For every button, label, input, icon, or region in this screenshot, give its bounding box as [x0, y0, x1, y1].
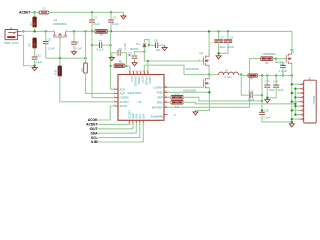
svg-text:C4: C4: [230, 36, 234, 40]
junction minus rail pin 8: [294, 114, 296, 116]
junction rail C15 right: [261, 74, 263, 76]
pin J1-1: [18, 31, 21, 33]
resistor R2: [95, 30, 107, 34]
wire C12 to output rail: [282, 68, 284, 76]
wire LODRV to Q4 gate: [168, 86, 204, 88]
svg-text:ACOK: ACOK: [120, 104, 128, 108]
wire J2 pin 4 to minus rail: [295, 96, 299, 98]
svg-text:1uF: 1uF: [156, 48, 161, 52]
pin J2-6: [299, 105, 302, 107]
svg-text:CMSRC: CMSRC: [120, 96, 130, 100]
wire switch node to Q4 drain: [208, 75, 210, 79]
transistor Q1 FDS6680A: [53, 31, 67, 41]
svg-text:C15: C15: [249, 89, 254, 93]
wire rail down to R6: [110, 45, 112, 66]
wire SRP to R10: [168, 96, 172, 98]
pin J2-5: [299, 101, 302, 103]
wire C2 to input bus: [110, 22, 112, 31]
junction R4 rail row: [84, 57, 86, 59]
svg-text:PHASE: PHASE: [144, 77, 148, 86]
junction rail C12: [282, 74, 284, 76]
capacitor C10: [32, 57, 38, 59]
wire C9 right down to R6 node: [120, 53, 126, 66]
junction minus rail pin 4: [294, 96, 296, 98]
wire bus to C3: [218, 31, 220, 40]
svg-text:10uF: 10uF: [219, 45, 225, 49]
wire C11 top: [134, 52, 136, 56]
junction bus C6: [73, 30, 75, 32]
svg-text:PWR_JACK: PWR_JACK: [4, 41, 19, 45]
svg-text:ILIM: ILIM: [91, 140, 98, 144]
junction plus rail pin 7: [291, 109, 293, 111]
wire switch node to L1: [209, 74, 218, 76]
resistor R6 100: [114, 64, 125, 68]
svg-text:2.2uF: 2.2uF: [35, 60, 42, 64]
svg-text:GND: GND: [157, 90, 163, 94]
junction rail battery: [291, 74, 293, 76]
wire bus down to Q3 drain: [208, 31, 210, 53]
wire sense rail down: [261, 76, 263, 111]
svg-text:U5: U5: [137, 100, 141, 104]
resistor R11: [171, 101, 183, 105]
junction gate node: [59, 57, 61, 59]
wire top rail to C1: [91, 12, 93, 20]
junction minus rail SRN: [294, 103, 296, 105]
svg-text:0.1uF: 0.1uF: [264, 116, 271, 120]
junction Q4 source gnd: [208, 91, 210, 93]
wire SDA label to IC pin 8: [98, 123, 136, 133]
wire C1 to input bus: [91, 22, 93, 31]
wire ACDET junction down to R1: [34, 12, 36, 17]
junction Q2 gate C12: [275, 57, 277, 59]
svg-text:C2: C2: [113, 15, 117, 19]
wire top rail end hook: [111, 12, 124, 14]
svg-text:2K: 2K: [34, 22, 37, 25]
pin U5 top PHASE: [143, 72, 145, 75]
pin J2-7: [299, 109, 302, 111]
svg-text:100: 100: [117, 64, 122, 68]
svg-text:D1: D1: [136, 42, 140, 46]
junction C1 top: [91, 11, 93, 13]
junction bus C1 rail: [91, 30, 93, 32]
wire HIDRV row to Q3 gate: [144, 60, 203, 62]
svg-text:SDA: SDA: [134, 113, 138, 119]
svg-text:ACDET: ACDET: [86, 123, 97, 127]
wire gate node down to R16: [59, 58, 61, 66]
svg-text:J1: J1: [10, 26, 13, 30]
transistor Q4 SIS412DN: [203, 78, 209, 88]
svg-text:10m: 10m: [174, 100, 179, 104]
wire C8 right to ground: [158, 45, 165, 46]
svg-text:1: 1: [53, 30, 54, 32]
pin J2-9: [299, 118, 302, 120]
junction C8 left: [148, 44, 150, 46]
pin U5 bottom SCL: [139, 120, 141, 123]
svg-text:NF: NF: [265, 57, 269, 61]
svg-text:BATDRV: BATDRV: [152, 105, 163, 109]
pin U5 left ACOK: [115, 105, 119, 107]
svg-text:REGN: REGN: [148, 77, 152, 85]
capacitor C13: [264, 85, 270, 87]
pin U5 bottom SDA: [135, 120, 137, 123]
svg-text:ILIM: ILIM: [141, 114, 145, 119]
svg-text:Battery: Battery: [312, 96, 316, 105]
junction C7 left: [91, 44, 93, 46]
wire R4 to IC pin ACP: [86, 73, 115, 93]
svg-text:C5: C5: [48, 37, 52, 41]
junction bus R1: [33, 30, 35, 32]
junction plus rail pin 3: [291, 92, 293, 94]
wire SRN to R11: [168, 101, 172, 103]
svg-text:IOUT: IOUT: [90, 127, 98, 131]
svg-text:SIS412DN: SIS412DN: [186, 67, 199, 71]
wire J2 pin 8 to minus rail: [295, 114, 299, 116]
resistor R3: [33, 38, 37, 48]
wire bus to C6: [73, 31, 75, 41]
ground symbol C11: [132, 62, 137, 66]
svg-text:ACN: ACN: [120, 87, 126, 91]
junction C15 right rail: [261, 94, 263, 96]
wire R16 to IC pin ACDRV route: [60, 76, 115, 102]
capacitor C9: [118, 50, 120, 56]
svg-text:ACDET: ACDET: [127, 110, 131, 119]
diode D1 BAT54: [143, 44, 146, 47]
resistor R16: [58, 66, 62, 76]
svg-text:4.7uH: 4.7uH: [224, 75, 231, 79]
wire battery minus rail vertical: [294, 89, 296, 115]
svg-text:2K: 2K: [34, 43, 37, 46]
wire top rail to C2: [110, 12, 112, 20]
svg-text:C1: C1: [94, 15, 98, 19]
wire L1 to output rail: [239, 74, 242, 76]
junction minus rail pin 2: [294, 88, 296, 90]
wire REGN node down: [143, 52, 145, 61]
wire J1 pin2 ground return: [21, 35, 35, 65]
wire C3 C4 bottoms join: [219, 42, 228, 53]
wire output rail to R7: [241, 75, 248, 77]
wire to C8: [149, 44, 156, 46]
svg-text:R7: R7: [250, 76, 254, 80]
svg-text:R2: R2: [100, 32, 104, 36]
pin J2-1: [299, 83, 302, 85]
junction switch node: [208, 73, 210, 75]
wire R3 to C10: [34, 48, 36, 57]
junction J1 output: [22, 30, 24, 32]
wire C15 right: [252, 94, 262, 96]
junction minus rail pin 6: [294, 105, 296, 107]
svg-text:SCL: SCL: [91, 136, 98, 140]
pin U5 right SRP: [164, 96, 168, 98]
junction C7 right: [109, 44, 111, 46]
wire C6 to ground: [73, 44, 75, 51]
pin U5 top BTST: [140, 72, 142, 75]
connector J1 PWR_JACK: [5, 30, 18, 40]
svg-text:C14: C14: [273, 79, 278, 83]
wire J2 pin 3 to plus rail: [292, 92, 299, 94]
pin U5 bottom IOUT: [132, 120, 134, 123]
wire J2 pin 9 to plus rail: [292, 118, 299, 120]
wire J2 pin 1 to plus rail: [292, 83, 299, 85]
wire down to IC top pin BTST: [147, 61, 149, 75]
capacitor C14: [273, 85, 279, 87]
svg-text:0.1uF: 0.1uF: [112, 22, 119, 26]
wire to C7: [92, 44, 100, 46]
wire J2 pin 7 to plus rail: [292, 109, 299, 111]
wire bus to C4: [227, 31, 229, 40]
svg-text:C7: C7: [99, 39, 103, 43]
junction rail C14: [275, 74, 277, 76]
resistor R10: [171, 96, 183, 100]
junction HIDRV pin: [147, 60, 149, 62]
capacitor C15: [250, 92, 252, 98]
pin U5 right LODRV: [164, 86, 168, 88]
capacitor C5: [43, 42, 49, 44]
wire C2 rail down: [110, 31, 112, 45]
svg-text:2.2uF: 2.2uF: [123, 42, 127, 49]
junction bus C5: [45, 30, 47, 32]
wire R6 right: [125, 65, 127, 67]
wire Q1 drain bus to right: [67, 30, 293, 32]
svg-text:PowerPAD: PowerPAD: [151, 114, 164, 118]
pin U5 top VCC: [129, 72, 131, 75]
capacitor C1: [89, 20, 95, 22]
capacitor C3: [214, 40, 223, 42]
wire C11 bottom: [134, 58, 136, 62]
wire VCC node to IC top pin: [127, 66, 130, 75]
junction battery minus bottom: [291, 121, 293, 123]
pin U5 left ACN: [115, 88, 119, 90]
op-amp U5 bq24725A body: [118, 75, 164, 121]
wire IC top pin PHASE up: [143, 65, 145, 74]
pin U5 right SRN: [164, 101, 168, 103]
transistor Q3 SIS412DN: [203, 54, 209, 68]
svg-text:10m: 10m: [174, 95, 179, 99]
svg-text:IOUT: IOUT: [131, 112, 135, 119]
wire IOUT label to IC pin 9: [98, 123, 133, 129]
wire BATDRV to R5: [168, 59, 261, 108]
svg-text:FDS6680A: FDS6680A: [53, 22, 67, 26]
svg-text:3: 3: [66, 30, 67, 32]
pin U5 PowerPAD: [164, 114, 168, 116]
wire SCL label to IC pin 7: [98, 123, 140, 137]
wire Q3 source to switch node: [208, 67, 210, 75]
pin U5 left ACDRV: [115, 101, 119, 103]
wire ground run to arrow: [196, 110, 210, 112]
svg-text:BAT54: BAT54: [130, 47, 139, 51]
junction R6 left: [109, 65, 111, 67]
ground symbol power stage: [193, 111, 198, 115]
wire bus to C5: [45, 31, 47, 41]
capacitor C8: [156, 43, 158, 49]
junction bus C4: [227, 30, 229, 32]
wire J2 pin 2 to minus rail: [295, 88, 299, 90]
transistor Q2 FDS6680A: [286, 52, 292, 65]
svg-text:R5: R5: [265, 61, 269, 65]
svg-text:10uF: 10uF: [269, 88, 275, 92]
pin U5 top HIDRV: [136, 72, 138, 75]
wire C10 to ground node: [34, 59, 36, 66]
no-connect mark: [129, 54, 131, 56]
fuse F1: [39, 11, 49, 14]
svg-text:PHASE1: PHASE1: [134, 77, 138, 88]
svg-text:Q3: Q3: [199, 51, 203, 55]
svg-text:HIDRV: HIDRV: [137, 77, 141, 85]
junction ground node left: [33, 65, 35, 67]
pin J2-3: [299, 92, 302, 94]
svg-text:F1: F1: [42, 6, 46, 10]
pin U5 right BATDRV: [164, 106, 168, 108]
junction bus C3: [217, 30, 219, 32]
wire PHASE row to switch node: [144, 65, 209, 74]
ground symbol battery: [289, 123, 294, 127]
wire J2 pin 5 to plus rail: [292, 101, 299, 103]
capacitor C6: [71, 42, 77, 44]
pin U5 left CMSRC: [115, 97, 119, 99]
wire rail to C13: [266, 76, 268, 86]
inductor L1: [219, 72, 239, 75]
wire Q4 source down to gnd run: [208, 88, 210, 111]
pin U5 top PHASE1: [133, 72, 135, 75]
pin J2-8: [299, 114, 302, 116]
ground symbol C9: [109, 56, 114, 60]
svg-text:0.1uF: 0.1uF: [93, 22, 100, 26]
svg-text:ACOK: ACOK: [88, 118, 98, 122]
junction rail C13: [266, 74, 268, 76]
svg-text:ACDET: ACDET: [19, 10, 30, 14]
pin U5 top REGN: [147, 72, 149, 75]
wire C1 rail down: [91, 31, 93, 45]
pin J2-4: [299, 96, 302, 98]
wire rail jog: [240, 74, 242, 77]
junction R6 right: [125, 65, 127, 67]
wire bus down to Q2 drain: [291, 31, 293, 52]
svg-text:FDS6680A: FDS6680A: [262, 52, 276, 56]
ground symbol left: [32, 66, 37, 70]
wire Q1 gate down: [59, 41, 61, 58]
wire J2 pin 6 to minus rail: [295, 105, 299, 107]
wire bus down to R4: [85, 31, 87, 63]
capacitor C12: [280, 65, 286, 67]
wire R11 to battery rail: [183, 102, 295, 104]
junction C16 top: [261, 109, 263, 111]
pin U5 bottom ILIM: [142, 120, 144, 123]
wire J1 pin1 to bus: [21, 31, 24, 33]
junction C3 C4 ground: [217, 52, 219, 54]
wire gate node down to C12: [276, 59, 283, 66]
svg-text:L1: L1: [225, 68, 228, 72]
wire rail to IC pin ACN: [111, 66, 115, 89]
svg-text:SRN: SRN: [157, 100, 163, 104]
wire ACOK label to IC pin 5: [98, 106, 115, 120]
svg-text:J2: J2: [308, 77, 311, 81]
svg-text:SDA: SDA: [91, 131, 99, 135]
svg-text:VCC: VCC: [130, 77, 134, 83]
resistor R5: [261, 57, 273, 61]
capacitor C7: [100, 42, 102, 48]
connector J2 Battery body: [304, 80, 317, 123]
capacitor C2: [108, 20, 114, 22]
wire F1 to VIN top rail: [49, 11, 111, 13]
junction C13 C14 ground: [266, 97, 268, 99]
junction output rail L1: [240, 73, 242, 75]
junction bus R4: [84, 30, 86, 32]
capacitor C16: [259, 112, 265, 114]
svg-text:R1: R1: [29, 22, 33, 26]
svg-text:R3: R3: [28, 43, 32, 47]
wire rail to IC pin CMSRC: [92, 45, 115, 97]
wire C13 C14 bottoms join: [267, 87, 276, 98]
wire D1 anode down: [143, 47, 145, 52]
wire R7 to battery plus: [258, 75, 292, 77]
svg-text:ACDRV: ACDRV: [120, 100, 130, 104]
svg-text:BTST: BTST: [141, 77, 145, 84]
wire ACDET to fuse F1: [31, 11, 39, 13]
pin J2-2: [299, 88, 302, 90]
svg-text:C3: C3: [220, 36, 224, 40]
junction REGN node: [143, 51, 145, 53]
wire C11 to REGN node: [135, 51, 145, 53]
wire rail to C14: [275, 76, 277, 86]
wire input bus to Q1 source: [24, 30, 54, 32]
wire ACDET label to IC pin 10: [98, 123, 129, 124]
svg-text:LODRV: LODRV: [153, 85, 162, 89]
pin U5 right GND: [164, 91, 168, 93]
pin U5 bottom ACDET: [128, 120, 130, 123]
wire R1 to input bus: [34, 27, 36, 31]
ground symbol C6: [72, 51, 77, 55]
wire C7 to right rail: [102, 44, 111, 46]
wire C16 to battery minus: [262, 114, 292, 122]
junction sense C16: [261, 100, 263, 102]
junction bus C2 rail: [110, 30, 112, 32]
wire IC GND pin to Q4 source: [168, 91, 210, 93]
junction plus rail pin 9: [291, 118, 293, 120]
capacitor C11: [132, 56, 138, 58]
junction C2 top: [110, 11, 112, 13]
wire battery plus rail: [291, 76, 293, 122]
svg-text:10uF: 10uF: [277, 88, 283, 92]
ground symbol C3 C4: [216, 55, 221, 59]
pin J1-2: [18, 34, 21, 36]
junction bus Q3: [208, 30, 210, 32]
junction plus rail pin 5: [291, 101, 293, 103]
svg-text:bq24725A: bq24725A: [128, 91, 142, 95]
capacitor C4: [224, 40, 233, 42]
wire ILIM label to IC pin 6: [98, 123, 143, 142]
svg-text:ACP: ACP: [120, 92, 126, 96]
wire D1 cathode to C8 node: [144, 40, 149, 46]
wire R5 to Q2 gate: [273, 58, 286, 60]
svg-text:R4: R4: [80, 68, 84, 72]
wire Q2 source to output rail: [291, 65, 293, 76]
svg-text:SCL: SCL: [138, 113, 142, 119]
svg-text:0.1uF: 0.1uF: [97, 47, 104, 51]
power flag arrow top: [121, 15, 126, 19]
wire C9 left to ground: [112, 53, 118, 57]
ground symbol C8: [162, 46, 167, 50]
svg-text:C16: C16: [264, 108, 269, 112]
wire rail down to C15 left: [241, 76, 250, 96]
svg-text:SRP: SRP: [157, 95, 163, 99]
svg-text:0.1uF: 0.1uF: [248, 97, 255, 101]
svg-text:2.2nF: 2.2nF: [48, 47, 55, 51]
svg-text:R16: R16: [54, 69, 58, 74]
resistor R4: [84, 63, 88, 73]
wire R10 to battery sense: [183, 97, 262, 101]
junction plus rail pin 1: [291, 83, 293, 85]
resistor R7: [248, 74, 258, 77]
ground symbol C13 C14: [265, 98, 270, 102]
